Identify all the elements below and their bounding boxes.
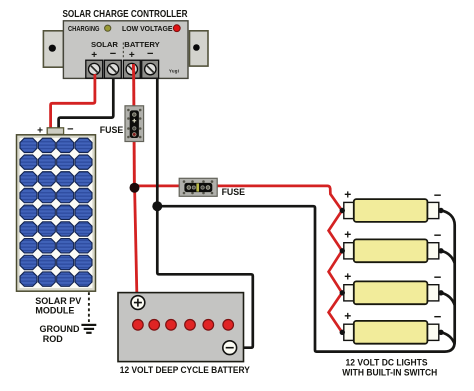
U1 separator between SOLAR and BATTERY sections (122, 43, 124, 58)
svg-text:−: − (434, 270, 442, 285)
svg-text:CHARGING: CHARGING (68, 24, 100, 33)
solar charge controller U1: body (63, 21, 188, 79)
light L3 negative lead junction (438, 290, 443, 295)
wire: light L2 negative lead to bus (441, 251, 455, 263)
battery B1 positive terminal (131, 296, 145, 310)
svg-text:SOLAR CHARGE CONTROLLER: SOLAR CHARGE CONTROLLER (63, 9, 189, 20)
svg-text:WITH BUILT-IN SWITCH: WITH BUILT-IN SWITCH (342, 367, 437, 377)
light L4: 12V DC tube light with built-in switch (344, 321, 439, 344)
svg-text:−: − (434, 309, 442, 324)
svg-text:+: + (91, 50, 97, 61)
U1 SOLAR- terminal 2 (104, 60, 121, 78)
svg-text:−: − (147, 48, 153, 60)
svg-text:−: − (434, 228, 442, 243)
solar charge controller U1: right mounting tab (190, 31, 209, 66)
svg-text:BATTERY: BATTERY (124, 40, 159, 49)
wire: red from node J1 down to battery positive terminal (135, 188, 137, 297)
svg-text:+: + (344, 187, 351, 201)
svg-text:+: + (344, 228, 351, 242)
ground rod connection: dashed earth wire (88, 292, 90, 323)
svg-text:LOW VOLTAGE: LOW VOLTAGE (122, 24, 173, 33)
svg-text:SOLAR PV: SOLAR PV (35, 296, 81, 306)
light L4 negative lead junction (438, 330, 443, 335)
fuse F2 holder (horizontal, lights line) (179, 178, 217, 196)
wire: black negative return from node J2 to lights negative bus (157, 206, 454, 351)
battery B1: 12V deep cycle body (118, 293, 244, 362)
wire: battery - black from controller BATTERY- down to node J2 (156, 76, 159, 206)
wire: solar - black from controller SOLAR- to PV junction box (59, 72, 114, 131)
svg-text:MODULE: MODULE (35, 306, 74, 316)
U1 BATTERY- terminal 4 (142, 60, 159, 78)
wire: black from node J2 around to battery negative terminal (157, 206, 253, 348)
battery B1 negative terminal (223, 341, 237, 355)
svg-text:FUSE: FUSE (222, 187, 246, 197)
U1 charging LED (green) (105, 25, 111, 31)
svg-text:FUSE: FUSE (100, 125, 124, 135)
svg-text:ROD: ROD (43, 334, 64, 344)
wire: SOLAR+ red stub below screw 1 (94, 74, 97, 79)
U1 SOLAR+ terminal 1 (86, 60, 103, 78)
battery B1 cell caps (133, 320, 234, 331)
light L3: 12V DC tube light with built-in switch (344, 281, 439, 304)
wire: solar + red from controller SOLAR+ to PV junction box (51, 72, 95, 131)
wire: light L3 negative lead to bus (441, 293, 455, 305)
ground symbol (81, 325, 96, 333)
svg-text:−: − (67, 124, 73, 136)
svg-text:12 VOLT DC LIGHTS: 12 VOLT DC LIGHTS (346, 357, 428, 367)
svg-text:+: + (129, 50, 135, 61)
light L4 positive lead junction (340, 330, 345, 335)
node J1: red junction (battery+/lights feed) (130, 183, 140, 193)
solar PV module PV1: junction box (47, 128, 63, 135)
svg-text:12 VOLT DEEP CYCLE BATTERY: 12 VOLT DEEP CYCLE BATTERY (120, 365, 251, 375)
light L2: 12V DC tube light with built-in switch (344, 239, 439, 262)
fuse F1 holder (vertical, battery+ line) (125, 106, 144, 142)
svg-text:−: − (434, 187, 442, 202)
svg-text:−: − (110, 48, 116, 60)
light L1 positive lead junction (340, 208, 345, 213)
wire: BATTERY+ red stub over screw 3 (132, 64, 135, 79)
solar charge controller U1: left mounting tab (43, 31, 63, 67)
svg-text:Yugi: Yugi (169, 69, 179, 74)
svg-text:+: + (344, 270, 351, 284)
light L2 positive lead junction (340, 248, 345, 253)
svg-text:GROUND: GROUND (40, 324, 80, 334)
node J2: black junction (battery-/lights return) (152, 201, 162, 211)
PV1 solar cells grid 4x9 (20, 138, 92, 286)
wire: red from node J1 right through fuse F2 to lights positive zigzag bus (135, 186, 343, 332)
wire: light L4 negative lead to bus (441, 332, 455, 344)
U1 low voltage LED (red) (173, 25, 180, 32)
solar PV module PV1: frame (17, 135, 96, 291)
light L1: 12V DC tube light with built-in switch (344, 199, 439, 222)
U1 BATTERY+ terminal 3 (123, 60, 140, 78)
light L2 negative lead junction (438, 248, 443, 253)
light L3 positive lead junction (340, 290, 345, 295)
light L1 negative lead junction (438, 208, 443, 213)
svg-text:+: + (344, 309, 351, 323)
wire: battery + red from controller BATTERY+ down through fuse F1 to node J1 (132, 63, 136, 188)
